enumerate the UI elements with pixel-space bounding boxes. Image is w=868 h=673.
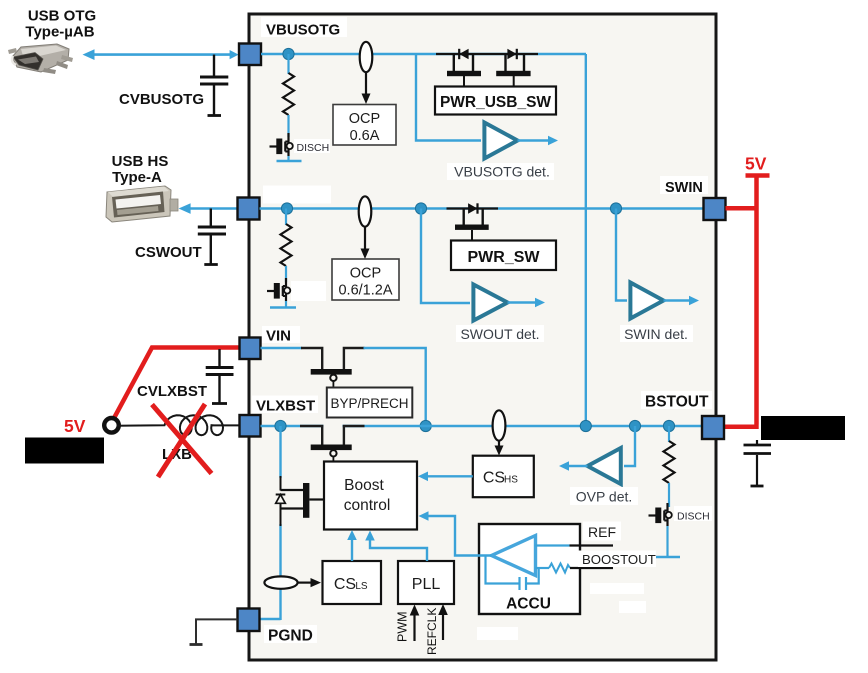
block Boost control bbox=[324, 462, 417, 530]
svg-text:CSWOUT: CSWOUT bbox=[135, 244, 202, 261]
label OVP det bbox=[570, 487, 638, 505]
svg-text:DISCH: DISCH bbox=[297, 142, 330, 154]
wire red VIN supply bbox=[114, 348, 241, 420]
pin PGND bbox=[238, 609, 260, 632]
white patch below ACCU left bbox=[477, 627, 518, 640]
block OCP 0.6A bbox=[333, 105, 396, 146]
block PWR_USB_SW bbox=[435, 87, 556, 115]
svg-text:5V: 5V bbox=[745, 154, 767, 174]
label DISCH 2 bbox=[674, 506, 712, 521]
capacitor CSWOUT bbox=[210, 209, 212, 227]
svg-text:ACCU: ACCU bbox=[506, 596, 551, 613]
transistor Q1a (PWR_USB_SW left) bbox=[447, 54, 481, 87]
block PLL bbox=[398, 561, 454, 604]
pin BSTOUT bbox=[702, 416, 724, 439]
label pin PGND bbox=[264, 625, 317, 643]
resistor R1 (VBUSOTG discharge) bbox=[283, 73, 294, 115]
transistor Q3 BYP switch bbox=[301, 348, 365, 388]
block PWR_SW bbox=[451, 241, 556, 271]
black redaction box left bbox=[25, 438, 104, 464]
label REF bbox=[583, 522, 621, 541]
label BOOSTOUT bbox=[578, 551, 656, 568]
wire FET to ground bbox=[287, 156, 289, 161]
pin VLXBST bbox=[240, 415, 261, 437]
svg-text:VLXBST: VLXBST bbox=[256, 398, 315, 415]
label pin BSTOUT bbox=[641, 391, 712, 409]
wire node to resistor bbox=[285, 209, 287, 226]
wire REF input bbox=[536, 544, 570, 546]
wire SWOUT internal bbox=[260, 207, 704, 209]
wire branch to SWOUT det bbox=[421, 209, 470, 304]
wire comparator output bbox=[518, 139, 552, 141]
svg-text:LS: LS bbox=[355, 581, 368, 592]
comparator VBUSOTG det bbox=[484, 123, 517, 159]
svg-text:PWM: PWM bbox=[396, 611, 410, 642]
svg-text:SWIN: SWIN bbox=[665, 180, 703, 196]
svg-text:CVBUSOTG: CVBUSOTG bbox=[119, 91, 204, 108]
svg-text:DISCH: DISCH bbox=[677, 511, 710, 523]
capacitor CVBUSOTG bbox=[213, 55, 215, 76]
label SWIN det bbox=[620, 325, 693, 342]
wire BSTOUT node to resistor bbox=[668, 426, 670, 442]
wire branch to VBUSOTG det bbox=[416, 54, 481, 141]
svg-text:BSTOUT: BSTOUT bbox=[645, 394, 709, 411]
arrow sensor to CS_LS box bbox=[298, 581, 313, 583]
wire branch to OVP det bbox=[624, 426, 635, 466]
svg-text:0.6/1.2A: 0.6/1.2A bbox=[338, 283, 392, 299]
svg-text:VIN: VIN bbox=[266, 328, 291, 345]
label pin VLXBST bbox=[252, 396, 318, 414]
svg-text:Type-A: Type-A bbox=[112, 169, 162, 186]
wire CS_LS to Boost control bbox=[351, 534, 353, 561]
5V rail bar bbox=[746, 173, 770, 178]
node BSTOUT x669 bbox=[663, 420, 674, 431]
wire OVP det output bbox=[566, 465, 588, 467]
connector J1 USB OTG micro-AB receptacle bbox=[8, 44, 73, 74]
signal arrow PWM bbox=[413, 612, 415, 641]
svg-text:HS: HS bbox=[504, 475, 518, 486]
white patch right of ACCU 1 bbox=[590, 583, 644, 594]
svg-text:PLL: PLL bbox=[412, 576, 441, 593]
comparator SWIN det bbox=[630, 283, 663, 319]
comparator OVP det bbox=[588, 448, 621, 484]
wire FET to ground bbox=[285, 301, 287, 307]
node BSTOUT x635 bbox=[629, 420, 640, 431]
transistor Q4 boost switch bbox=[300, 426, 365, 462]
svg-text:CS: CS bbox=[483, 470, 505, 487]
ground (BSTOUT discharge) bbox=[655, 556, 681, 559]
wire SWOUT external arrow bbox=[184, 207, 237, 210]
svg-text:VBUSOTG: VBUSOTG bbox=[266, 22, 340, 39]
white patch right of ACCU 2 bbox=[619, 601, 646, 613]
node VLXBST branch bbox=[275, 420, 286, 431]
wire VIN FET to VLXBST node bbox=[364, 348, 426, 426]
wire 5V to SWIN pin bbox=[726, 206, 759, 211]
feedback capacitor C_fb bbox=[486, 556, 519, 584]
transistor Q2 (PWR_SW) bbox=[455, 209, 489, 242]
wire black segment under PWR_USB_SW bbox=[436, 53, 538, 55]
wire 5V vertical red bbox=[754, 177, 759, 425]
svg-text:OVP det.: OVP det. bbox=[576, 489, 633, 505]
wire SWOUT det output bbox=[508, 301, 539, 303]
svg-text:control: control bbox=[344, 497, 391, 514]
block ACCU bbox=[479, 524, 580, 614]
label VBUSOTG det bbox=[447, 163, 554, 180]
block OCP 0.6/1.2A bbox=[332, 259, 399, 300]
capacitor CVLXBST bbox=[218, 349, 220, 367]
black redaction box right bbox=[761, 416, 845, 440]
current sensor ellipse CS_LS bbox=[264, 576, 297, 588]
body diode D1b bbox=[507, 49, 516, 59]
wire VBUSOTG external (bidirectional arrow) bbox=[88, 53, 234, 56]
transistor Q1b (PWR_USB_SW right) bbox=[496, 54, 530, 87]
pin SWOUT bbox=[238, 198, 260, 220]
diode D3 body bbox=[276, 495, 286, 504]
wire PLL to Boost control bbox=[370, 535, 427, 561]
svg-text:0.6A: 0.6A bbox=[350, 128, 380, 144]
wire PGND external ground bbox=[196, 619, 238, 644]
signal arrow REFCLK bbox=[442, 611, 444, 640]
arrow sensor to OCP box bbox=[365, 72, 367, 96]
wire vertical to BSTOUT row bbox=[585, 54, 587, 427]
current sensor ellipse (OCP 0.6A) bbox=[360, 42, 373, 72]
svg-text:Boost: Boost bbox=[344, 477, 384, 494]
svg-text:SWOUT det.: SWOUT det. bbox=[460, 326, 539, 342]
arrow sensor to CS_HS box bbox=[498, 441, 500, 449]
wire 5V to BSTOUT pin bbox=[724, 425, 759, 430]
svg-text:REFCLK: REFCLK bbox=[425, 608, 439, 655]
wire PGND branch vertical bbox=[279, 426, 281, 478]
svg-text:CVLXBST: CVLXBST bbox=[137, 383, 207, 400]
svg-text:BOOSTOUT: BOOSTOUT bbox=[582, 552, 656, 567]
node VIN bypass joins VLXBST bbox=[420, 420, 431, 431]
terminal circle 5V input bbox=[104, 418, 119, 433]
transistor DISCH (VBUSOTG) bbox=[270, 133, 293, 156]
comparator SWOUT det bbox=[473, 285, 507, 321]
node on SWOUT wire bbox=[281, 203, 292, 214]
transistor Q5 low-side bbox=[281, 483, 325, 518]
svg-text:PWR_USB_SW: PWR_USB_SW bbox=[440, 94, 551, 111]
pin SWIN bbox=[704, 198, 726, 220]
body diode D2 bbox=[468, 203, 477, 213]
body diode D1a bbox=[459, 49, 468, 59]
ground symbol external bbox=[190, 643, 203, 646]
red X over inductor bbox=[152, 405, 212, 474]
svg-text:5V: 5V bbox=[64, 416, 86, 436]
node SWOUT to det branch bbox=[415, 203, 426, 214]
op-amp U2 error amplifier bbox=[492, 536, 536, 576]
white patch (erased SWOUT label) bbox=[263, 186, 331, 204]
svg-text:BYP/PRECH: BYP/PRECH bbox=[330, 396, 408, 411]
IC U1 body bbox=[249, 14, 716, 660]
wire resistor to DISCH FET bbox=[668, 483, 670, 507]
svg-text:SWIN det.: SWIN det. bbox=[624, 326, 688, 342]
label pin SWIN bbox=[660, 176, 708, 194]
label pin VBUSOTG bbox=[261, 17, 347, 37]
label DISCH bbox=[294, 139, 330, 153]
wire FET to ground bbox=[666, 526, 668, 557]
transistor DISCH (SWOUT) bbox=[267, 278, 290, 301]
svg-text:VBUSOTG det.: VBUSOTG det. bbox=[454, 164, 550, 180]
current sensor ellipse CS_HS bbox=[493, 410, 506, 440]
wire SWIN det output bbox=[664, 299, 693, 301]
arrow sensor to OCP box bbox=[364, 227, 366, 252]
wire node to resistor bbox=[287, 54, 289, 74]
svg-text:USB HS: USB HS bbox=[112, 153, 169, 170]
block CS_LS bbox=[323, 561, 382, 604]
wire gap in Q3 bbox=[324, 345, 343, 351]
node BSTOUT x586 bbox=[580, 420, 591, 431]
svg-text:Type-µAB: Type-µAB bbox=[25, 24, 94, 41]
capacitor CBSTOUT external bbox=[756, 440, 758, 444]
svg-text:CS: CS bbox=[334, 576, 356, 593]
low-side FET segment black bbox=[280, 476, 282, 491]
wire branch to SWIN det bbox=[616, 209, 627, 301]
svg-text:PWR_SW: PWR_SW bbox=[468, 249, 541, 266]
resistor R2 (SWOUT discharge) bbox=[281, 224, 292, 266]
label SWOUT det bbox=[456, 325, 544, 342]
wire gap in Q4 bbox=[324, 423, 343, 429]
wire ACCU output to Boost control bbox=[424, 516, 492, 556]
wire VBUSOTG internal bbox=[261, 53, 586, 55]
connector J2 USB Type-A receptacle bbox=[106, 186, 178, 222]
node on VBUSOTG wire bbox=[283, 48, 294, 59]
wire resistor to DISCH FET bbox=[287, 115, 289, 137]
pin VIN bbox=[240, 338, 261, 360]
svg-text:PGND: PGND bbox=[268, 628, 313, 645]
ground (SWOUT discharge) bbox=[270, 306, 296, 309]
wire VLXBST to BSTOUT internal bbox=[261, 425, 703, 427]
svg-text:OCP: OCP bbox=[349, 111, 380, 127]
wire VIN internal bbox=[261, 347, 303, 349]
wire black segment under PWR_SW bbox=[447, 207, 499, 209]
svg-text:USB OTG: USB OTG bbox=[28, 8, 96, 25]
wire resistor to FET bbox=[285, 266, 287, 282]
resistor R3 (BSTOUT discharge) bbox=[664, 441, 675, 483]
block BYP/PRECH bbox=[327, 388, 413, 418]
inductor LXB with lead wires bbox=[117, 415, 240, 435]
wire CS_HS to Boost control bbox=[422, 475, 473, 477]
transistor DISCH (BSTOUT) bbox=[649, 503, 672, 526]
wire BOOSTOUT input with resistor R4 bbox=[536, 567, 550, 569]
block CS_HS bbox=[473, 456, 534, 498]
svg-text:REF: REF bbox=[588, 524, 616, 540]
svg-text:OCP: OCP bbox=[350, 266, 381, 282]
ground (VBUSOTG discharge) bbox=[277, 160, 302, 163]
white patch right of FET bbox=[291, 281, 326, 301]
current sensor ellipse (OCP 0.6/1.2A) bbox=[359, 196, 372, 226]
node SWIN branch bbox=[610, 203, 621, 214]
pin VBUSOTG bbox=[239, 44, 261, 66]
label pin VIN bbox=[262, 326, 300, 343]
